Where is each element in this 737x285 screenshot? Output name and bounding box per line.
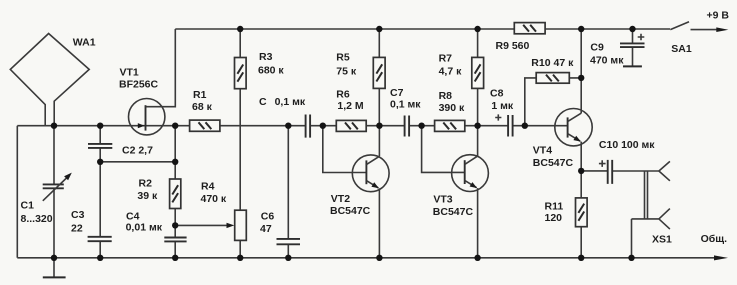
capacitor C10 100 mk polarized	[608, 160, 613, 184]
svg-text:47: 47	[260, 223, 272, 235]
potentiometer R4 470k	[235, 210, 247, 240]
wire VT1 source / R2 / C4 branch vertical	[174, 126, 176, 258]
svg-text:+9 В: +9 В	[707, 10, 730, 22]
junction bus C3	[97, 255, 103, 261]
resistor R3 680k	[235, 58, 247, 89]
svg-text:470 мк: 470 мк	[590, 54, 624, 66]
junction bus XS1	[628, 255, 634, 261]
junction rail R5	[376, 26, 382, 32]
resistor R6 1,2M	[336, 120, 366, 131]
svg-text:R10 47 к: R10 47 к	[531, 57, 574, 69]
junction R2 bottom C4 node	[172, 222, 178, 228]
capacitor C6 47	[277, 239, 301, 244]
junction bus R11	[578, 255, 584, 261]
wire left vertical from gate line to bus	[16, 126, 18, 258]
svg-text:0,01 мк: 0,01 мк	[126, 222, 163, 234]
wire VT4 collector lead to rail	[580, 29, 582, 113]
svg-text:0,1 мк: 0,1 мк	[275, 96, 306, 108]
svg-text:C10 100 мк: C10 100 мк	[599, 139, 655, 151]
junction bus C1	[51, 255, 57, 261]
svg-text:SA1: SA1	[671, 43, 692, 55]
junction rail C9	[629, 26, 635, 32]
svg-text:BC547C: BC547C	[330, 205, 371, 217]
junction C6 node	[285, 123, 291, 129]
antenna WA1	[10, 34, 89, 126]
resistor R2 39k	[170, 179, 181, 209]
svg-text:BC547C: BC547C	[433, 206, 474, 218]
capacitor C3 22	[88, 237, 112, 241]
svg-text:XS1: XS1	[652, 234, 672, 246]
svg-text:VT2: VT2	[331, 193, 350, 205]
wire +9V supply rail	[175, 28, 670, 30]
svg-text:390 к: 390 к	[439, 102, 465, 114]
svg-text:C4: C4	[126, 210, 140, 222]
wire C9 leads	[632, 29, 634, 66]
wire R11 leads	[580, 171, 582, 258]
junction bus VT3 emitter	[474, 255, 480, 261]
junction bus C6	[285, 255, 291, 261]
wire C6 branch vertical	[287, 126, 289, 258]
junction VT2 collector node	[376, 123, 382, 129]
svg-text:R2: R2	[139, 178, 153, 190]
junction rail R3	[237, 26, 243, 32]
svg-text:C6: C6	[261, 211, 275, 223]
resistor R10 47k	[536, 73, 569, 84]
junction VT4 emitter node	[578, 168, 584, 174]
capacitor C2 2,7	[88, 144, 112, 148]
wire VT4 emitter to C10	[581, 170, 659, 172]
wire R5 branch vertical	[378, 29, 380, 126]
junction bus C4	[172, 255, 178, 261]
junction C2 bottom link left	[97, 159, 103, 165]
svg-text:C2 2,7: C2 2,7	[122, 145, 153, 157]
junction antenna C1 node	[51, 123, 57, 129]
capacitor C9 470 mk polarized	[620, 43, 645, 47]
wire R4 wiper arrow	[175, 224, 227, 226]
wire R3/R4 vertical branch	[239, 29, 241, 258]
svg-text:680 к: 680 к	[258, 64, 284, 76]
switch SA1	[670, 22, 689, 30]
transistor VT2 BC547C	[352, 155, 389, 192]
svg-text:VT3: VT3	[433, 193, 452, 205]
wire C2/C3 branch vertical	[99, 126, 101, 258]
capacitor C1 variable 8...320	[43, 184, 64, 188]
svg-text:BF256C: BF256C	[119, 79, 159, 91]
svg-text:R1: R1	[193, 89, 207, 101]
svg-text:C1: C1	[21, 200, 35, 212]
junction C2 gate node	[97, 123, 103, 129]
transistor VT3 BC547C	[452, 155, 489, 192]
svg-text:BC547C: BC547C	[533, 157, 574, 169]
junction VT3 base node	[418, 123, 424, 129]
svg-text:0,1 мк: 0,1 мк	[390, 99, 421, 111]
junction link right source branch	[172, 159, 178, 165]
resistor R9 560 in supply rail	[514, 23, 545, 34]
resistor R11 120	[576, 198, 588, 227]
svg-text:R9 560: R9 560	[496, 40, 530, 52]
svg-text:8...320: 8...320	[21, 213, 53, 225]
junction VT1 source node	[172, 123, 178, 129]
capacitor C 0,1 mk coupling	[306, 115, 311, 138]
wire VT2 base lead	[323, 126, 367, 173]
svg-text:4,7 к: 4,7 к	[439, 65, 463, 77]
connector XS1 jack	[645, 171, 648, 219]
resistor R7 4,7k	[472, 57, 484, 88]
junction VT3 collector node	[474, 123, 480, 129]
svg-text:R4: R4	[201, 181, 215, 193]
svg-text:R3: R3	[259, 51, 273, 63]
capacitor C8 1 mk polarized	[508, 115, 512, 137]
junction bus VT2 emitter	[376, 255, 382, 261]
junction VT4 base node	[522, 123, 528, 129]
svg-text:C9: C9	[590, 41, 604, 53]
svg-text:39 к: 39 к	[137, 190, 158, 202]
svg-text:R7: R7	[439, 53, 453, 65]
ground chassis stub below C9	[623, 65, 642, 67]
svg-text:R6: R6	[336, 88, 350, 100]
wire link C2 bottom to source branch	[100, 161, 175, 163]
svg-text:Общ.: Общ.	[701, 233, 728, 245]
+9V output arrow	[691, 29, 719, 31]
svg-text:1 мк: 1 мк	[491, 100, 514, 112]
capacitor C4 0,01 mk	[164, 238, 186, 242]
resistor R1 68k	[190, 120, 220, 131]
wire common bottom bus	[17, 257, 714, 259]
junction R10 collector node	[578, 75, 584, 81]
junction bus R4	[237, 255, 243, 261]
transistor VT1 BF256C	[129, 99, 165, 135]
svg-text:R5: R5	[336, 52, 350, 64]
wire VT3 base lead	[422, 126, 465, 173]
svg-text:470 к: 470 к	[201, 193, 227, 205]
common bus output arrow	[714, 255, 728, 260]
transistor VT4 BC547C	[555, 109, 592, 146]
wire R7 branch vertical	[477, 29, 479, 126]
ground chassis stub below C1	[53, 258, 55, 277]
capacitor C7 0,1 mk	[405, 116, 410, 137]
svg-text:C7: C7	[390, 87, 404, 99]
wire gate/signal horizontal line	[17, 125, 567, 127]
svg-text:C3: C3	[71, 209, 85, 221]
svg-text:VT4: VT4	[533, 145, 552, 157]
svg-text:VT1: VT1	[120, 67, 139, 79]
resistor R5 75k	[373, 57, 385, 88]
svg-text:68 к: 68 к	[192, 101, 213, 113]
svg-text:120: 120	[545, 212, 563, 224]
svg-text:75 к: 75 к	[336, 66, 357, 78]
wire R10 feedback leads	[525, 78, 581, 126]
junction VT2 base node	[320, 123, 326, 129]
svg-text:22: 22	[71, 222, 83, 234]
junction rail VT4 collector	[578, 26, 584, 32]
svg-text:R8: R8	[439, 90, 453, 102]
svg-text:WA1: WA1	[73, 36, 96, 48]
svg-text:R11: R11	[545, 201, 564, 213]
resistor R8 390k	[435, 120, 465, 131]
svg-text:C8: C8	[490, 87, 504, 99]
svg-text:1,2 М: 1,2 М	[337, 100, 364, 112]
wire C1 branch vertical	[53, 126, 55, 258]
junction rail R7	[474, 26, 480, 32]
svg-text:C: C	[259, 96, 267, 108]
